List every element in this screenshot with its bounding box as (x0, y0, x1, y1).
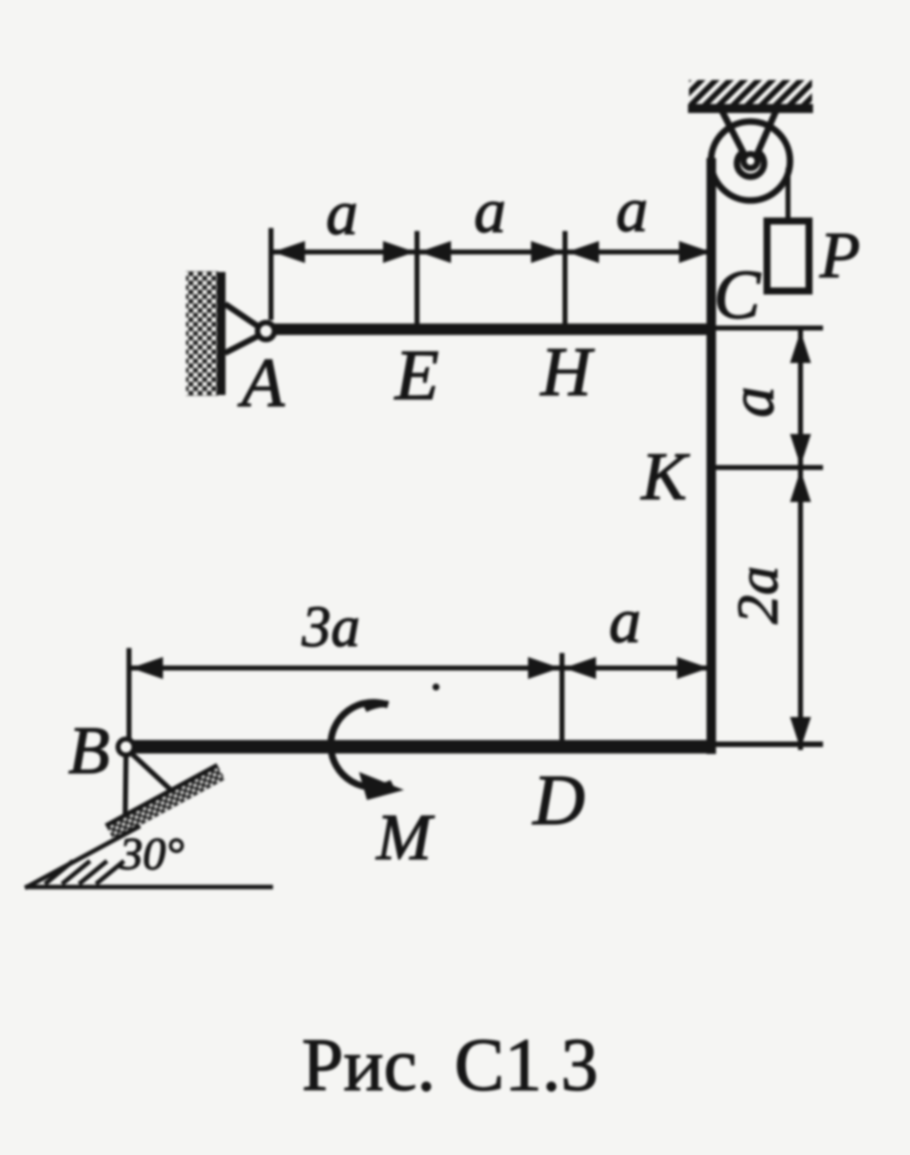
svg-text:E: E (394, 335, 439, 415)
svg-text:A: A (238, 345, 285, 422)
svg-text:K: K (640, 438, 690, 514)
svg-text:a: a (474, 175, 506, 246)
svg-text:P: P (819, 219, 860, 292)
svg-text:B: B (68, 712, 110, 788)
svg-text:C: C (714, 257, 762, 334)
svg-text:30°: 30° (119, 828, 184, 879)
svg-text:M: M (376, 801, 436, 874)
svg-text:H: H (540, 334, 595, 411)
svg-text:2a: 2a (725, 566, 790, 624)
svg-text:a: a (609, 585, 641, 656)
svg-text:a: a (326, 177, 358, 248)
svg-text:D: D (532, 760, 585, 840)
svg-text:a: a (616, 174, 648, 245)
svg-text:3a: 3a (301, 594, 360, 659)
svg-text:Рис. С1.3: Рис. С1.3 (302, 1024, 598, 1107)
svg-text:a: a (719, 387, 787, 418)
